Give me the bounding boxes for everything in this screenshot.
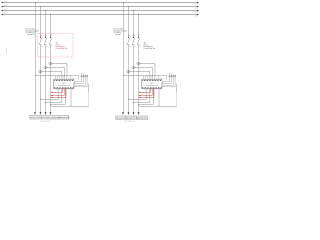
pin numbers 2 4 6: [129, 46, 140, 48]
connector X2 bar: [168, 76, 176, 78]
junction dots on bus: [35, 2, 51, 15]
controller top pins: [144, 78, 162, 80]
bus line L3: [2, 10, 197, 12]
margin reference mark: [5, 49, 7, 54]
wire L1 drop: [40, 7, 42, 113]
bus line L2: [2, 6, 197, 8]
tap junction dots: [123, 63, 139, 76]
pin numbers 1 3 5: [41, 34, 52, 36]
load terminal box: [30, 116, 69, 120]
load terminal box: [116, 116, 148, 119]
bus line L1: [2, 2, 197, 4]
annotation text Q2: [143, 42, 155, 51]
tap ellipse L3: [49, 62, 52, 64]
breaker Q1 pole 1: [39, 34, 41, 45]
bottom wire junction dots: [40, 99, 51, 105]
wire N drop: [35, 3, 37, 113]
contact gaps: [40, 38, 41, 44]
controller bottom pin numbers: [54, 87, 74, 89]
pin feed wires: [144, 76, 158, 78]
controller U1 box: [54, 80, 75, 89]
load terminal text: [30, 116, 69, 119]
tap wire L2 to controller: [134, 68, 153, 78]
svg-text:CONTROLLER: CONTROLLER: [58, 84, 70, 87]
bus arrows left: [1, 2, 4, 16]
connector X2 pins: [169, 74, 175, 77]
pin numbers 2 4 6: [41, 46, 52, 48]
svg-text:L1: L1: [4, 0, 6, 3]
tap ellipse L1: [127, 70, 130, 72]
controller bottom pin stubs: [56, 89, 72, 90]
breaker Q2 pole 2: [132, 34, 134, 45]
controller bottom wires: [41, 89, 72, 107]
controller right wires to connector: [74, 77, 87, 87]
tap wire L2 to controller: [46, 68, 65, 78]
svg-text:L3: L3: [195, 11, 197, 14]
red annotation text Q1: [55, 42, 67, 51]
controller right wires to connector: [162, 77, 175, 87]
load arrows: [34, 112, 52, 115]
green highlight: [32, 32, 34, 35]
wire L2 drop: [45, 11, 47, 113]
tap ellipse L2: [44, 66, 47, 68]
controller bottom pin numbers: [142, 87, 162, 89]
controller label text: [146, 82, 158, 87]
controller bottom pin stubs: [144, 89, 160, 90]
tap ellipse L3: [137, 62, 140, 64]
bus labels left: [4, 0, 6, 14]
wire long return: [176, 84, 178, 92]
svg-text:L3: L3: [4, 8, 6, 11]
svg-text:-X2: -X2: [168, 73, 170, 75]
red output wire 3: [51, 89, 66, 98]
label Q1 rating: [25, 28, 39, 36]
load arrows: [122, 112, 140, 115]
controller top pin numbers: [54, 79, 73, 81]
label Q2 rating: [113, 28, 127, 36]
svg-text:L1: L1: [195, 3, 197, 6]
connector X1 pins: [81, 74, 87, 77]
wire N drop: [123, 3, 125, 113]
tap ellipse L2: [132, 66, 135, 68]
connector X2 terminals: [169, 75, 176, 76]
bus line N: [2, 14, 197, 16]
junction dots on bus: [123, 2, 139, 15]
bus labels right: [195, 3, 197, 18]
red output wire 1: [139, 89, 150, 93]
tap wire L3 to controller: [51, 64, 68, 78]
controller top pin numbers: [142, 79, 161, 81]
tap wire N to controller: [124, 76, 167, 80]
svg-text:L2: L2: [4, 4, 6, 7]
wire L2 drop: [133, 11, 135, 113]
controller bottom wires: [129, 89, 160, 107]
connector X1 terminals: [81, 75, 88, 76]
breaker Q2 pole 3: [137, 34, 139, 45]
controller U2 box: [142, 80, 163, 89]
controller top pins: [56, 78, 74, 80]
tap wire L1 to controller: [41, 72, 62, 78]
breaker Q1 pole 3: [49, 34, 51, 45]
load terminal text: [116, 117, 147, 120]
connector X1 bar: [80, 76, 88, 78]
tap wire L3 to controller: [139, 64, 156, 78]
red selection box: [38, 34, 73, 57]
red output wire 1: [51, 89, 62, 93]
contact gaps: [128, 38, 129, 44]
red output wire 2: [139, 89, 152, 96]
svg-text:-X1: -X1: [80, 73, 82, 75]
red output wire 2: [51, 89, 64, 96]
wire long return: [88, 84, 90, 92]
wire L3 drop: [138, 15, 140, 113]
tap wire L1 to controller: [129, 72, 150, 78]
controller label text: [58, 82, 70, 87]
breaker Q2 pole 1: [127, 34, 129, 45]
bottom wire junction dots: [128, 99, 139, 105]
breaker Q1 pole 2: [44, 34, 46, 45]
tap junction dots: [35, 63, 51, 76]
tap ellipse L1: [39, 70, 42, 72]
wire L3 drop: [50, 15, 52, 113]
tap wire N to controller: [36, 76, 79, 80]
svg-text:L2: L2: [195, 7, 197, 10]
red output wire 3: [139, 89, 154, 98]
bus arrows right: [197, 2, 200, 16]
svg-text:CONTROLLER: CONTROLLER: [146, 84, 158, 87]
wire L1 drop: [128, 7, 130, 113]
pin feed wires: [56, 76, 70, 78]
pin numbers 1 3 5: [129, 34, 140, 36]
